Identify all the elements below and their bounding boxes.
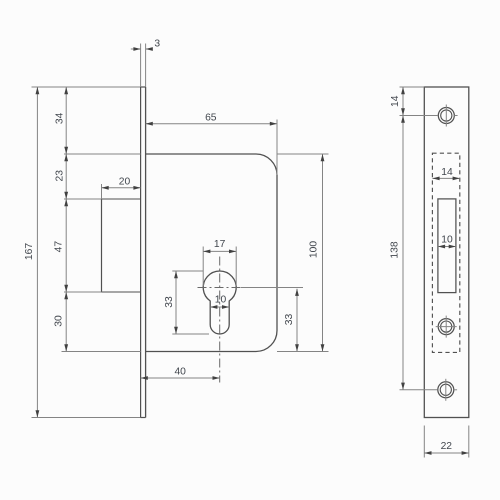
svg-text:100: 100	[309, 241, 320, 258]
bottom screw hole	[438, 382, 454, 398]
svg-text:138: 138	[390, 241, 401, 258]
dim 10 cutout line	[438, 246, 456, 248]
dim 17 ext lines	[202, 247, 204, 287]
dim 40 line	[141, 377, 220, 379]
cylinder vertical centerline	[219, 257, 221, 383]
svg-text:14: 14	[390, 95, 401, 107]
svg-text:40: 40	[174, 367, 186, 378]
ext line recess top to chain	[64, 198, 102, 200]
faceplate left edge	[140, 87, 142, 418]
svg-text:22: 22	[441, 441, 453, 452]
svg-text:167: 167	[24, 243, 35, 260]
dim 14 cutout line	[432, 177, 459, 179]
dim 20 line	[102, 187, 141, 189]
chain dim line	[65, 87, 67, 352]
cylinder hole euro profile	[203, 271, 236, 334]
dim 10 line	[210, 306, 229, 308]
top screw hole	[438, 108, 454, 124]
centerline extension to right 33 dim	[241, 287, 303, 289]
dim 22 line	[424, 452, 469, 454]
cylinder cutout rect	[438, 199, 456, 293]
faceplate top edge + extension line	[32, 86, 141, 88]
dim 33 left ext lines	[172, 270, 203, 272]
faceplate right edge	[145, 87, 147, 418]
svg-text:33: 33	[164, 296, 175, 308]
case right edge extension up	[276, 120, 278, 176]
case top extension right	[277, 153, 329, 155]
dim 167 line	[36, 87, 38, 418]
svg-text:3: 3	[154, 39, 160, 50]
svg-text:14: 14	[441, 167, 453, 178]
strike plate outline	[424, 87, 469, 418]
svg-text:23: 23	[54, 170, 65, 182]
faceplate bottom edge + extension line	[32, 417, 141, 419]
dim 100 line	[322, 154, 324, 352]
dim 3 extension lines	[140, 44, 142, 88]
middle screw hole	[438, 319, 454, 335]
case bottom extension right	[277, 351, 329, 353]
chain arrows	[64, 87, 68, 94]
ext line top hole to dim	[400, 115, 438, 117]
ext line bottom hole to dim	[400, 389, 438, 391]
svg-text:65: 65	[205, 113, 217, 124]
dim 14 plate line	[402, 87, 404, 116]
dim 20 ext line	[101, 184, 103, 199]
bottom screw hole centerline ticks	[445, 379, 447, 401]
dim 3 arrows	[131, 48, 141, 50]
ext line plate top to dim	[400, 86, 425, 88]
dim 17 line	[203, 250, 236, 252]
ext line case bottom to chain	[62, 351, 141, 353]
top screw hole centerline ticks	[445, 105, 447, 127]
svg-text:30: 30	[54, 315, 65, 327]
lock case outline	[146, 154, 277, 352]
svg-text:17: 17	[214, 239, 226, 250]
ext line case top to chain	[64, 153, 141, 155]
svg-text:20: 20	[119, 177, 131, 188]
inner recess rectangle in case	[101, 199, 103, 292]
dashed case outline on plate	[432, 153, 459, 352]
dim 65 line	[146, 123, 277, 125]
svg-text:10: 10	[215, 295, 227, 306]
cylinder horizontal centerline	[198, 287, 242, 289]
dim 33 right line	[296, 289, 298, 352]
dim 138 line	[402, 116, 404, 390]
dim 33 left line	[175, 271, 177, 334]
svg-text:47: 47	[54, 241, 65, 253]
svg-text:34: 34	[54, 112, 65, 124]
svg-text:10: 10	[441, 234, 453, 245]
svg-text:33: 33	[284, 314, 295, 326]
middle screw hole centerline ticks	[445, 316, 447, 338]
dim 22 ext lines	[423, 426, 425, 458]
ext line recess bottom to chain	[64, 291, 102, 293]
